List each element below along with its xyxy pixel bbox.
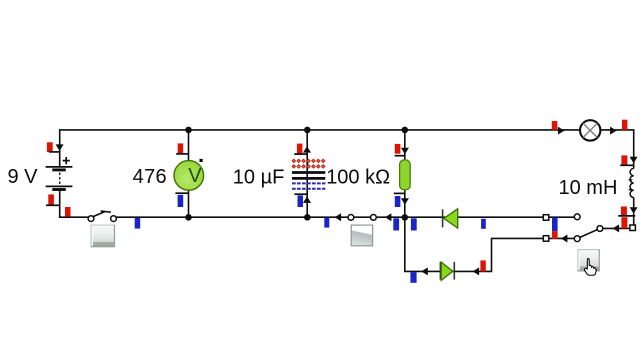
- voltage bar blue right of bottom junction: [411, 218, 417, 230]
- voltage bar red bottom-left wire: [65, 207, 71, 217]
- svg-text:10 µF: 10 µF: [233, 166, 285, 188]
- battery plus sign: [63, 157, 70, 164]
- capacitor plate top: [292, 171, 325, 174]
- voltage bar red D2 branch right: [480, 260, 485, 271]
- svg-text:476: 476: [133, 166, 167, 188]
- voltage bar red battery bottom: [48, 194, 54, 204]
- wire D2 branch: junction down, across, up to terminal: [405, 217, 544, 271]
- SPDT contact circle bottom: [574, 236, 580, 242]
- tick resistor bottom terminal: [394, 192, 405, 194]
- battery dashed middle: [59, 173, 61, 186]
- wire resistor branch lower: [404, 189, 406, 217]
- voltmeter U1: [174, 159, 204, 190]
- tick battery top terminal: [49, 151, 60, 153]
- capacitor negative charges row 1: [292, 182, 325, 184]
- SPDT switch SW3: [543, 214, 635, 242]
- push button under SW1 (raised): [91, 225, 114, 246]
- svg-text:10 mH: 10 mH: [559, 177, 618, 199]
- voltage bar red SPDT common: [621, 217, 627, 228]
- SPDT lever: [579, 229, 598, 237]
- junction node bottom-capacitor: [304, 214, 311, 221]
- push button under SW2 (pressed): [351, 225, 372, 246]
- mouse hand cursor: [584, 259, 596, 276]
- svg-text:V: V: [188, 165, 202, 187]
- D1 cathode bar: [442, 209, 444, 227]
- inductor L2 10mH: [629, 168, 634, 197]
- wire bottom bus segment 3 (through SW2 to D1 terminal): [354, 216, 544, 218]
- svg-text:100 kΩ: 100 kΩ: [326, 166, 390, 188]
- SPDT pivot circle: [597, 226, 603, 232]
- voltage bar red before lamp: [552, 121, 558, 130]
- SPDT terminal square common: [630, 225, 636, 231]
- capacitor plate bottom: [292, 177, 325, 180]
- voltage bar red resistor top: [395, 144, 401, 154]
- wire SPDT common lead: [603, 227, 630, 229]
- D1 triangle: [444, 209, 458, 228]
- wire SPDT bottom contact lead: [549, 237, 575, 239]
- battery long plate 2: [46, 185, 73, 187]
- battery short plate 1: [52, 168, 66, 171]
- voltage bar blue between SPDT terminals (upper): [552, 218, 558, 231]
- voltage bar red after lamp: [622, 120, 627, 130]
- SW1 lever: [93, 212, 104, 217]
- tick voltmeter bottom terminal: [175, 192, 188, 194]
- current arrow up on capacitor branch bottom: [303, 196, 311, 203]
- current arrow right before lamp: [558, 127, 565, 135]
- battery B1 9V: [46, 157, 73, 190]
- wire top bus: [59, 129, 634, 131]
- current arrow down on resistor branch bottom: [401, 198, 409, 205]
- capacitor negative charges row 2: [292, 188, 325, 190]
- junction node top-voltmeter: [185, 127, 192, 134]
- voltage bar blue D2 branch left: [410, 272, 416, 283]
- resistor R1 100k: [400, 160, 411, 190]
- current arrow down on resistor branch top: [401, 148, 409, 155]
- diode D2 (pointing right): [440, 262, 454, 281]
- D2 anode lead bar: [439, 262, 441, 280]
- current arrow up on capacitor branch top: [303, 146, 311, 153]
- voltmeter corner dot: [200, 159, 203, 162]
- current arrow down on right vertical top: [630, 157, 638, 164]
- junction node top-capacitor: [304, 127, 311, 134]
- capacitor positive charges row 1: [292, 159, 325, 163]
- current arrow right after lamp: [610, 127, 617, 135]
- voltage bar blue resistor bottom: [395, 196, 401, 207]
- wire right vertical (lamp corner to inductor): [633, 129, 635, 168]
- voltage bar red capacitor top: [297, 144, 303, 154]
- current arrow left on bottom bus near SW2: [335, 213, 342, 221]
- tick inductor top terminal: [620, 164, 634, 166]
- wire inductor bottom to SPDT common: [633, 197, 635, 225]
- voltage bar red inductor top: [621, 155, 627, 165]
- junction node bottom-voltmeter: [185, 214, 192, 221]
- diode D1 (pointing left): [443, 209, 458, 228]
- current arrow down on battery branch: [56, 144, 64, 151]
- voltmeter body: [174, 161, 204, 191]
- voltage bar red voltmeter top: [178, 143, 184, 153]
- SW1 contact circle left: [88, 216, 94, 222]
- battery long plate 1: [46, 166, 73, 168]
- capacitor positive charges row 2: [292, 165, 325, 169]
- voltage bar blue left of bottom junction: [393, 218, 399, 230]
- SW1 contact circle right: [111, 216, 117, 222]
- voltage bar blue capacitor bottom: [298, 195, 304, 207]
- wire voltmeter branch upper: [188, 130, 190, 162]
- SPDT terminal square top: [543, 215, 549, 221]
- svg-text:9 V: 9 V: [8, 166, 39, 188]
- voltage bar blue left of SW2: [324, 218, 329, 228]
- current arrow down below inductor: [630, 207, 638, 214]
- wire bottom bus segment 1: [59, 216, 88, 218]
- switch SW1 (open): [88, 211, 116, 222]
- current arrow left on SPDT common lead: [613, 224, 620, 232]
- capacitor C1 10uF: [292, 159, 325, 189]
- wire resistor branch upper: [404, 130, 406, 161]
- tick capacitor bottom terminal: [294, 193, 307, 195]
- wire capacitor branch: [306, 130, 308, 218]
- voltage bar blue voltmeter bottom: [178, 195, 184, 207]
- SPDT contact circle top: [574, 214, 580, 220]
- D2 triangle: [441, 262, 453, 280]
- switch SW2 (closed) contact circle left: [348, 215, 354, 221]
- current arrow left on D2 branch (before corner): [473, 267, 480, 275]
- SPDT terminal square bottom: [543, 236, 549, 242]
- wire left vertical (battery branch upper): [59, 129, 61, 166]
- wire voltmeter branch lower: [188, 190, 190, 218]
- wire bottom bus segment 2 (SW1 to SW2): [116, 216, 348, 218]
- junction node top-resistor: [402, 127, 409, 134]
- current arrow left on D2 branch (after diode): [421, 267, 428, 275]
- battery short plate 2: [52, 188, 66, 191]
- current arrow left on bottom bus before junction: [385, 213, 392, 221]
- tick resistor top terminal: [395, 155, 405, 157]
- D2 cathode bar: [453, 262, 455, 280]
- tick capacitor top terminal: [294, 153, 307, 155]
- tick battery bottom terminal: [46, 204, 60, 206]
- voltage bar red battery top: [47, 142, 53, 152]
- lamp L1: [580, 120, 600, 140]
- wire SPDT top contact lead: [549, 216, 575, 218]
- voltage bar red inductor bottom: [621, 207, 627, 216]
- voltage bar red between SPDT terminals (lower): [552, 231, 558, 239]
- tick inductor bottom terminal: [618, 215, 635, 217]
- wire battery bottom to bottom bus: [59, 191, 61, 218]
- current arrow left on SPDT bottom lead: [561, 235, 568, 243]
- voltage bar blue D1 right: [481, 219, 486, 229]
- junction node bottom-resistor: [402, 214, 409, 221]
- tick voltmeter top terminal: [176, 153, 188, 155]
- voltage bar blue right of SW1: [135, 218, 141, 229]
- switch SW2 contact circle right: [371, 215, 377, 221]
- push button for SPDT (raised): [578, 250, 599, 271]
- SW1 lever handle: [101, 211, 111, 212]
